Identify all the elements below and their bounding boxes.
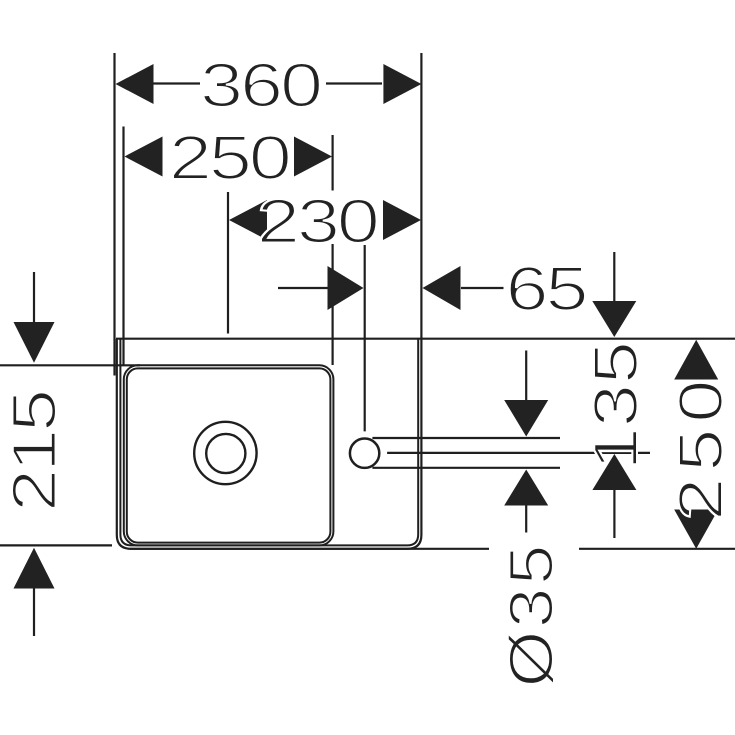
faucet hole center line: [387, 452, 650, 454]
dimension line 360 right segment: [326, 82, 382, 84]
reference line 215 top: [0, 364, 140, 366]
extension line faucet hole: [364, 245, 366, 431]
arrow d35 top: [504, 400, 548, 437]
extension line 360 left: [113, 53, 115, 376]
dimension tail 215 top: [33, 272, 35, 322]
dimension tail 135 bottom: [613, 490, 615, 538]
svg-text:360: 360: [200, 50, 321, 120]
dimension line 65 right segment: [461, 287, 504, 289]
arrow 250v bottom: [674, 510, 718, 549]
arrow 250v top: [674, 340, 718, 380]
reference line 215 bottom: [0, 544, 112, 546]
arrow 250 left: [125, 137, 163, 177]
svg-text:250: 250: [665, 374, 735, 521]
arrow 360 right: [383, 64, 421, 104]
extension line 250 right upper: [332, 135, 334, 191]
arrow 230 left: [229, 200, 267, 240]
dimension tail d35 bottom: [525, 505, 527, 533]
extension line basin right edge: [420, 53, 422, 339]
extension line 230 left: [227, 192, 229, 334]
arrow 65 inner right: [423, 266, 461, 310]
drain inner circle: [206, 434, 245, 473]
extension line 250 right lower: [332, 244, 334, 365]
arrow 250 right: [294, 137, 332, 177]
svg-text:230: 230: [257, 186, 378, 256]
arrow 360 left: [116, 64, 154, 104]
faucet hole top tangent line: [372, 437, 560, 439]
arrow 65 inner left: [328, 266, 364, 310]
arrow 135 bottom: [592, 454, 636, 490]
svg-text:Ø35: Ø35: [498, 542, 567, 687]
svg-text:215: 215: [0, 391, 69, 512]
dimension tail 135 top: [613, 252, 615, 302]
dimension tail 215 bottom: [33, 589, 35, 637]
arrow d35 bottom: [504, 470, 548, 506]
dimension line 360 left segment: [153, 82, 200, 84]
drain outer circle: [194, 422, 256, 484]
basin bowl outer rim: [124, 365, 334, 545]
svg-text:135: 135: [580, 341, 650, 470]
svg-text:65: 65: [506, 253, 587, 323]
basin outer outline inner line: [120, 339, 418, 546]
faucet hole bottom tangent line: [372, 467, 560, 469]
faucet hole circle: [350, 439, 379, 468]
dimension tail d35 top: [525, 351, 527, 401]
extension line 250 left: [122, 127, 124, 366]
arrow 215 bottom: [14, 548, 55, 589]
dimension line 65 left segment: [278, 287, 328, 289]
svg-text:250: 250: [169, 122, 290, 192]
basin bowl inner rim: [127, 368, 331, 542]
arrow 215 top: [14, 322, 55, 363]
arrow 135 top: [592, 301, 636, 337]
basin outer outline right side: [130, 339, 421, 549]
reference line basin top extended: [116, 338, 735, 340]
reference line bottom right segment: [579, 548, 735, 550]
arrow 230 right: [383, 200, 421, 240]
basin outer outline outer line: [117, 339, 489, 549]
